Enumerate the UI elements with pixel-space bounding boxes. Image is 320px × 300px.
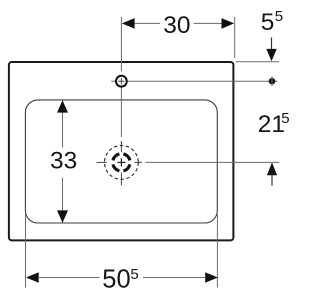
faucet hole centerline vertical lower xyxy=(120,87,122,137)
svg-text:5: 5 xyxy=(281,110,289,127)
svg-text:5: 5 xyxy=(130,266,138,283)
drain reference line to right xyxy=(145,161,279,163)
dimension 33 arrow up xyxy=(57,100,68,112)
svg-text:33: 33 xyxy=(50,148,77,175)
dimension 33 line lower xyxy=(62,178,64,223)
drain thick ring bottom-right arc xyxy=(123,164,129,170)
faucet hole circle xyxy=(116,76,127,87)
drain centerline horizontal dashes xyxy=(97,161,107,163)
dimension 30 left arrowhead xyxy=(122,18,135,29)
drain centerline vertical dashes xyxy=(120,141,122,152)
svg-text:50: 50 xyxy=(102,266,130,294)
top edge extension line for 5^5 xyxy=(236,61,279,63)
dimension 30 right extension line xyxy=(234,17,236,58)
50^5 right extension line xyxy=(216,214,218,288)
dimension 5^5 arrow down xyxy=(271,38,273,50)
drain thick ring bottom-left arc xyxy=(113,164,119,170)
basin inner bowl outline xyxy=(25,100,217,223)
50^5 left extension line xyxy=(25,213,27,288)
svg-text:30: 30 xyxy=(163,12,190,39)
dimension 30 line xyxy=(135,22,161,24)
dimension 50^5 left arrowhead xyxy=(26,272,39,283)
washbasin outer outline xyxy=(9,62,234,240)
dimension 50^5 right arrowhead xyxy=(205,272,218,283)
drain thick ring top-right arc xyxy=(123,154,129,160)
dimension 33 arrow down xyxy=(57,210,68,222)
drain dashed outline circle xyxy=(105,146,139,180)
drain center cross xyxy=(120,158,122,166)
faucet hole centerline left tick xyxy=(111,80,115,82)
dimension 50^5 line xyxy=(39,277,100,279)
dimension 5^5 dot terminator xyxy=(269,78,276,85)
dimension 33 line upper xyxy=(62,100,64,147)
faucet hole centerline vertical upper xyxy=(120,17,122,71)
faucet reference line to dot xyxy=(127,80,277,82)
dot tick vertical xyxy=(271,76,273,86)
dimension 30 right arrowhead xyxy=(222,18,235,29)
drain thick ring top-left arc xyxy=(113,154,119,160)
dimension 21^5 arrow up xyxy=(267,162,277,175)
svg-text:5: 5 xyxy=(275,8,283,25)
faucet hole center cross xyxy=(120,78,122,84)
svg-text:5: 5 xyxy=(261,9,275,36)
